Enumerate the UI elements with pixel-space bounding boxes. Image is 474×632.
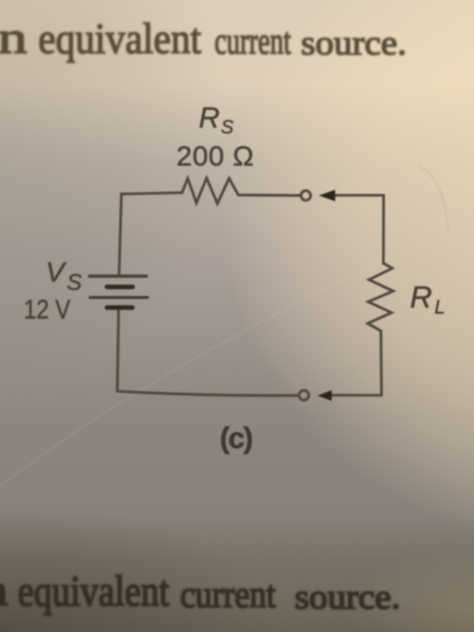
- svg-text:source.: source.: [301, 24, 407, 62]
- svg-text:equivalent: equivalent: [18, 569, 170, 616]
- svg-text:R: R: [199, 102, 220, 134]
- svg-text:n: n: [0, 566, 8, 615]
- svg-text:12 V: 12 V: [24, 294, 71, 324]
- svg-text:R: R: [410, 281, 432, 315]
- svg-text:current: current: [180, 574, 276, 616]
- svg-text:(c): (c): [220, 422, 253, 455]
- svg-text:S: S: [67, 269, 83, 295]
- svg-text:200 Ω: 200 Ω: [176, 140, 253, 171]
- svg-text:n: n: [0, 13, 27, 63]
- svg-text:equivalent: equivalent: [38, 16, 201, 63]
- svg-text:V: V: [46, 256, 67, 287]
- svg-text:current: current: [215, 21, 292, 63]
- svg-text:source.: source.: [295, 577, 401, 616]
- svg-text:L: L: [435, 298, 446, 319]
- svg-text:S: S: [221, 117, 234, 138]
